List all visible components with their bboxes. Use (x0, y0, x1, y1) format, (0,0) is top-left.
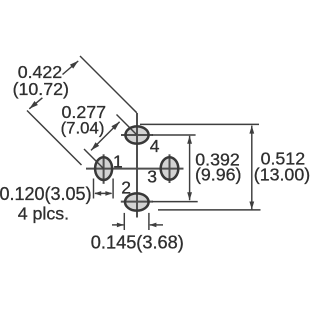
svg-text:3: 3 (147, 167, 157, 187)
svg-text:(13.00): (13.00) (254, 165, 310, 185)
svg-text:4: 4 (150, 136, 160, 156)
svg-text:2: 2 (121, 177, 131, 197)
svg-text:0.120(3.05): 0.120(3.05) (0, 184, 92, 204)
svg-text:(10.72): (10.72) (13, 79, 69, 99)
svg-text:(7.04): (7.04) (61, 119, 105, 138)
svg-text:4 plcs.: 4 plcs. (18, 204, 69, 224)
svg-text:0.145(3.68): 0.145(3.68) (91, 233, 184, 253)
svg-text:1: 1 (113, 152, 123, 172)
svg-text:(9.96): (9.96) (195, 164, 241, 184)
